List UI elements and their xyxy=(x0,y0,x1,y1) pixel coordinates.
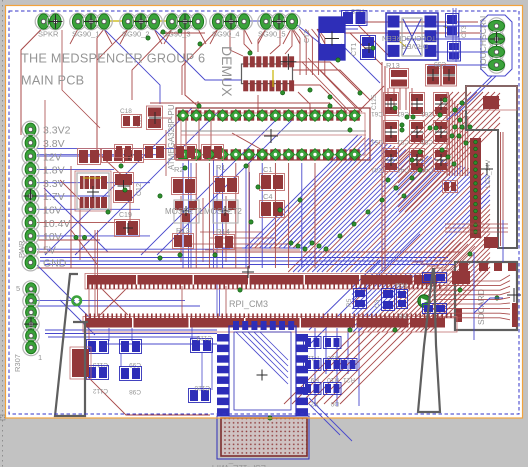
header PWR (power rail J1) xyxy=(17,121,71,271)
resistor R14 xyxy=(214,227,235,250)
svg-text:C123: C123 xyxy=(196,334,212,341)
capacitor C42 xyxy=(397,149,425,174)
capacitor C66 (bottom side) xyxy=(434,42,461,70)
capacitor C1 xyxy=(260,165,285,191)
wire bundle - red diagonals upper right xyxy=(398,92,500,212)
svg-text:1.7V: 1.7V xyxy=(43,191,65,203)
svg-text:DRIVER: DRIVER xyxy=(402,42,428,49)
via arrow marker xyxy=(418,295,430,307)
svg-text:ESP-12E_WIFI: ESP-12E_WIFI xyxy=(212,463,266,467)
capacitor C63 xyxy=(421,93,449,118)
svg-text:C112: C112 xyxy=(93,387,108,394)
part U4 power block xyxy=(70,347,91,379)
svg-text:CT3: CT3 xyxy=(461,25,468,38)
svg-text:5V: 5V xyxy=(43,244,56,256)
wire bundle - red mesh below R13 xyxy=(302,58,412,112)
connector SD socket body xyxy=(466,86,517,248)
capacitor C5 xyxy=(202,145,224,160)
capacitor C53 xyxy=(421,121,449,146)
resistor R3 xyxy=(144,145,166,160)
connector SG90_2 xyxy=(120,13,163,38)
svg-text:CT1: CT1 xyxy=(351,43,358,56)
capacitor C120 (bottom side) xyxy=(189,384,211,403)
svg-text:MOSFET1: MOSFET1 xyxy=(165,207,203,216)
capacitor C17 xyxy=(115,145,133,158)
svg-text:C4: C4 xyxy=(263,192,273,201)
connector SG90_3 xyxy=(163,13,206,38)
svg-text:1: 1 xyxy=(38,353,42,362)
part R11 (bottom side) xyxy=(304,337,322,362)
wire bundle - blue verticals near CT3 xyxy=(453,8,459,62)
transistor Q1 MOSFET1 xyxy=(174,200,199,223)
transistor Q2 MOSFET2 xyxy=(213,200,238,223)
svg-text:THE MEDSPENCER GROUP 6: THE MEDSPENCER GROUP 6 xyxy=(21,52,205,66)
connector TOUCHSCRN xyxy=(478,16,505,73)
svg-text:RPI_CM3: RPI_CM3 xyxy=(229,299,268,309)
svg-text:R21: R21 xyxy=(343,376,355,383)
capacitor C51 xyxy=(371,121,399,146)
svg-text:C18: C18 xyxy=(120,108,132,115)
svg-text:ATMEGA328P-PU: ATMEGA328P-PU xyxy=(167,104,176,170)
wire bundle - touchscreen nets xyxy=(344,15,512,120)
svg-text:C61: C61 xyxy=(371,110,383,117)
connector SG90_4 xyxy=(210,13,253,38)
svg-text:12V: 12V xyxy=(43,151,62,163)
resistor R6 (bottom side) xyxy=(398,304,446,320)
svg-text:C3: C3 xyxy=(374,299,381,308)
capacitor C55 xyxy=(426,60,447,86)
wire bundle - DIP to SODIMM verticals xyxy=(183,163,315,268)
resistor R5 (bottom side) xyxy=(346,289,367,309)
svg-text:LCD_14V: LCD_14V xyxy=(485,159,492,188)
capacitor C12 xyxy=(114,173,144,203)
svg-text:C99: C99 xyxy=(129,361,141,368)
capacitor C123 (bottom side) xyxy=(191,334,213,353)
connector SG90_5 xyxy=(258,13,301,38)
svg-text:R5: R5 xyxy=(346,298,353,307)
svg-text:C51: C51 xyxy=(371,138,383,145)
header R307 xyxy=(13,281,42,372)
regulator U6 xyxy=(75,171,111,211)
wire strikeout over SG90_3 label xyxy=(160,29,358,33)
part R9 (bottom side) xyxy=(304,359,322,384)
capacitor CT2 (bottom side) xyxy=(304,17,345,60)
svg-text:SPKR: SPKR xyxy=(38,30,59,39)
svg-text:C120: C120 xyxy=(194,384,210,391)
capacitor C52 xyxy=(397,121,425,146)
capacitor CT1 (bottom side) xyxy=(351,36,376,60)
svg-text:CT2: CT2 xyxy=(304,30,311,43)
wire bundle - horizontals above SODIMM xyxy=(37,252,460,268)
capacitor C15 xyxy=(137,106,163,130)
svg-text:R20: R20 xyxy=(327,354,339,361)
wire bundle - bottom red diagonals xyxy=(89,230,412,441)
silkscreen RPI_CM3 label xyxy=(229,299,268,309)
svg-text:SG90_3: SG90_3 xyxy=(163,30,191,39)
silkscreen title text xyxy=(21,52,205,88)
capacitor C41 xyxy=(371,149,399,174)
wire bundle - bar2 to bottom components verticals xyxy=(109,327,359,406)
capacitor C99 (bottom side) xyxy=(120,340,142,369)
vias around capacitor grid xyxy=(386,101,499,300)
resistor R2 xyxy=(172,165,197,195)
capacitor C62 xyxy=(397,93,425,118)
svg-text:SG90_2: SG90_2 xyxy=(122,30,150,39)
device outline left (tDocu) xyxy=(55,274,88,416)
svg-text:SG90_5: SG90_5 xyxy=(258,30,286,39)
origin axis dotted lines xyxy=(0,0,7,467)
connector SG90_1 xyxy=(70,13,113,38)
wire bundle - blue verticals SDCARD xyxy=(474,220,503,340)
svg-text:10.4V: 10.4V xyxy=(43,218,70,230)
antenna area ESP-12E (hatched) xyxy=(212,416,309,467)
svg-text:R11: R11 xyxy=(307,354,319,361)
wire bundle - red verticals to LCD connector xyxy=(447,92,468,176)
svg-text:R2: R2 xyxy=(174,165,184,174)
svg-text:3.3V2: 3.3V2 xyxy=(43,125,71,137)
svg-text:C19: C19 xyxy=(119,212,132,219)
silkscreen C125 label xyxy=(371,94,378,110)
svg-text:C12: C12 xyxy=(136,183,143,196)
svg-text:X2: X2 xyxy=(311,400,319,407)
connector LCD bar xyxy=(470,138,493,238)
capacitor C18 xyxy=(120,108,142,128)
svg-text:R33: R33 xyxy=(395,281,407,288)
part R20 (bottom side) xyxy=(324,337,342,362)
part D0 (bottom side) xyxy=(324,383,342,408)
resistor R13b xyxy=(173,226,194,249)
svg-text:C113: C113 xyxy=(93,361,108,368)
part R21 (bottom side) xyxy=(340,359,358,384)
resistor R1 xyxy=(214,163,239,194)
mounting hole / via H1 xyxy=(73,297,81,305)
wire bundle - horizontals to ESP module xyxy=(45,330,217,344)
svg-text:1.8V: 1.8V xyxy=(43,165,65,177)
IC socket U1 ATMEGA328P-PU xyxy=(167,104,370,170)
wire bundle - blue diagonals left-middle xyxy=(44,108,292,268)
resistor R33 (bottom side) xyxy=(395,273,447,289)
svg-text:R1: R1 xyxy=(216,163,226,172)
wire bundle - left header horizontals xyxy=(37,149,230,306)
capacitor CU2 (bottom side) xyxy=(446,14,469,39)
svg-text:TOUCHSCREEN: TOUCHSCREEN xyxy=(382,34,436,41)
svg-text:10V: 10V xyxy=(43,231,62,243)
capacitor C98 (bottom side) xyxy=(120,367,142,396)
svg-text:C53: C53 xyxy=(421,138,433,145)
connector SDCARD xyxy=(455,262,521,330)
capacitor C7 xyxy=(123,149,144,163)
svg-text:C55: C55 xyxy=(434,60,446,67)
wire yellow demux xyxy=(272,70,274,87)
svg-text:C43: C43 xyxy=(421,166,433,173)
svg-text:C125: C125 xyxy=(371,94,378,110)
wire yellow net xyxy=(91,21,452,47)
capacitor C61 xyxy=(371,93,399,118)
part R10 (bottom side) xyxy=(324,359,342,384)
wire bundle - misc blue diagonals xyxy=(37,234,420,384)
svg-text:3.3V: 3.3V xyxy=(43,178,65,190)
vias (scattered) xyxy=(74,29,472,420)
connector U2 touchscreen driver (bottom side) xyxy=(382,13,438,60)
resistor R13 xyxy=(386,61,409,88)
resistor R7 xyxy=(102,149,125,163)
svg-text:R10: R10 xyxy=(327,376,339,383)
svg-text:3.8V: 3.8V xyxy=(43,138,65,150)
svg-text:C42: C42 xyxy=(397,166,409,173)
connector SPKR xyxy=(35,13,64,38)
capacitor C4 xyxy=(260,192,285,218)
svg-text:R307: R307 xyxy=(13,354,22,372)
capacitor C112 (bottom side) xyxy=(87,366,109,395)
wire bundle - red fan into SDCARD xyxy=(413,224,510,320)
wire yellow U6 xyxy=(83,177,101,179)
silkscreen DEMUX label xyxy=(219,46,235,97)
svg-text:MAIN PCB: MAIN PCB xyxy=(21,74,84,88)
svg-text:5: 5 xyxy=(16,284,20,293)
device outline right (tDocu) xyxy=(418,268,440,412)
resistor R4 xyxy=(78,149,101,165)
part SD bottom block xyxy=(484,237,498,248)
capacitor C19 xyxy=(115,212,140,237)
svg-text:SG90_4: SG90_4 xyxy=(212,30,240,39)
capacitor C65 xyxy=(442,65,457,87)
IC U5 demux (SOIC-16) xyxy=(242,54,297,92)
svg-text:C52: C52 xyxy=(397,138,409,145)
resistor R8 (bottom side) xyxy=(397,290,408,309)
module U3 ESP-12E WiFi xyxy=(217,321,308,416)
capacitor C3 (bottom side) xyxy=(374,289,395,311)
capacitor C13 xyxy=(175,145,197,160)
svg-text:SG90_1: SG90_1 xyxy=(72,30,100,39)
svg-text:TOUCHSCRN: TOUCHSCRN xyxy=(478,16,488,70)
connector RPI_CM3 SODIMM row B xyxy=(83,314,457,333)
silkscreen MOSFET labels xyxy=(165,207,242,216)
svg-text:R9: R9 xyxy=(310,376,319,383)
svg-text:16V: 16V xyxy=(43,205,62,217)
svg-text:C63: C63 xyxy=(421,110,433,117)
capacitor C113 (bottom side) xyxy=(87,340,109,369)
svg-text:D0: D0 xyxy=(330,400,339,407)
wire bundle - main diagonal fan xyxy=(223,135,490,332)
wire bundle - misc red routing left xyxy=(45,25,390,268)
wire bundle - servo header verticals xyxy=(21,21,385,271)
svg-text:C41: C41 xyxy=(371,166,383,173)
resistor R28 (bottom side) xyxy=(342,7,368,26)
part X2 (bottom side) xyxy=(304,383,322,408)
capacitor C40 xyxy=(443,181,458,193)
connector RPI_CM3 SODIMM row A xyxy=(85,266,470,289)
svg-text:R6: R6 xyxy=(398,312,407,319)
svg-text:C98: C98 xyxy=(129,388,141,395)
svg-text:PWR: PWR xyxy=(17,240,26,258)
svg-text:MOSFET2: MOSFET2 xyxy=(204,207,242,216)
svg-text:C1: C1 xyxy=(263,165,273,174)
capacitor C43 xyxy=(421,149,449,174)
svg-text:GND: GND xyxy=(43,258,67,270)
svg-text:DEMUX: DEMUX xyxy=(219,46,235,97)
